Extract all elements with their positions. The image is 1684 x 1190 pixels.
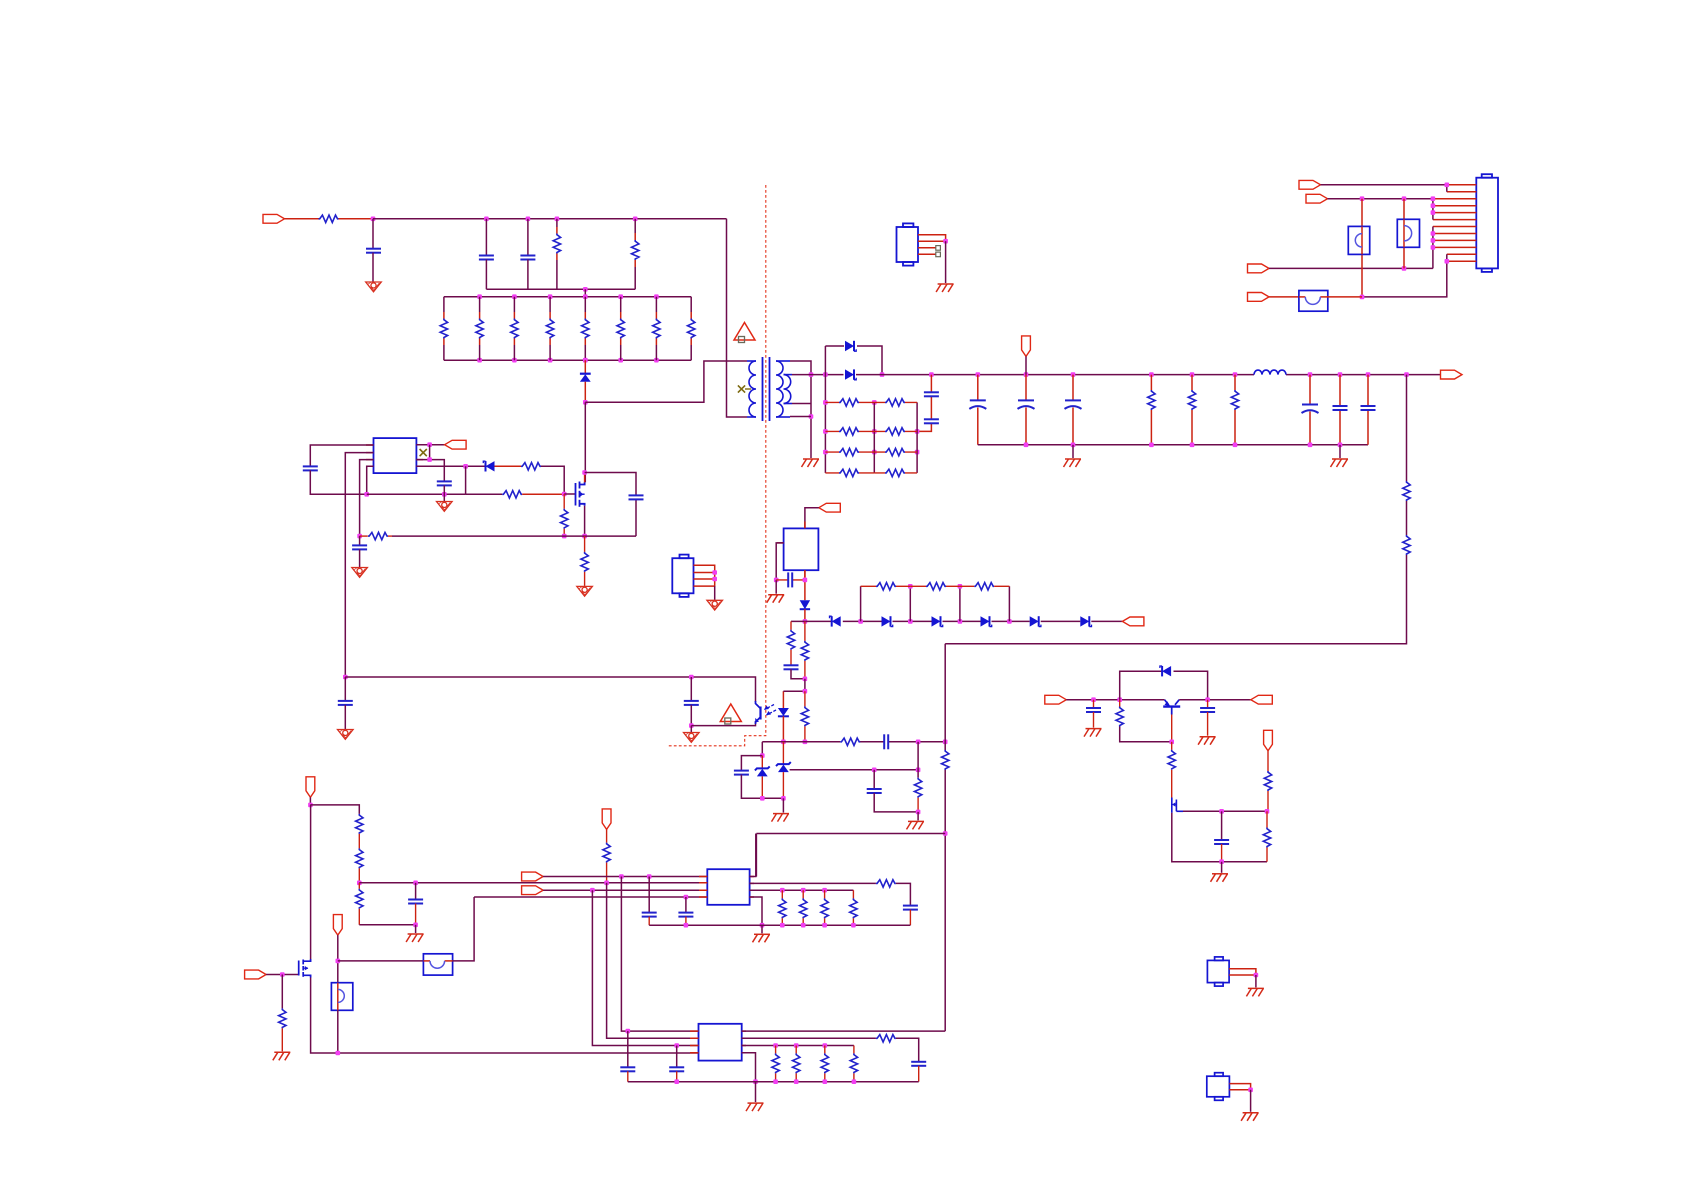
wire clamp bank top bus	[444, 296, 691, 298]
no-connect square pin3	[936, 246, 941, 251]
junction	[582, 534, 587, 539]
wire snubber right vertical	[916, 402, 918, 473]
jumper JP3	[331, 983, 352, 1011]
wire U5 ground bus	[628, 1081, 919, 1083]
wire	[1269, 267, 1433, 269]
diode D1	[845, 341, 856, 351]
wire feedback drop vertical	[945, 375, 1406, 644]
wire rail resistor row verticals	[861, 586, 1010, 621]
net flag U1 (left)	[445, 440, 467, 449]
junction	[823, 429, 828, 434]
wire	[344, 677, 346, 701]
wire	[761, 925, 763, 933]
resistor R32	[801, 691, 808, 742]
capacitor C20	[734, 771, 749, 775]
wire U5 R2 row	[742, 1038, 919, 1062]
resistor R35	[942, 750, 949, 770]
wire	[805, 508, 819, 529]
wire V3 vertical to IC3	[607, 883, 699, 1039]
junction	[929, 372, 934, 377]
junction	[689, 723, 694, 728]
junction	[872, 429, 877, 434]
junction	[760, 753, 765, 758]
junction	[872, 400, 877, 405]
junction	[880, 372, 885, 377]
wire	[1339, 445, 1341, 458]
junction	[822, 888, 827, 893]
zener Z1	[755, 756, 770, 799]
wire	[495, 465, 522, 467]
junction	[674, 1043, 679, 1048]
wire	[465, 466, 467, 494]
inductor L1	[1254, 370, 1286, 375]
wire feedback row	[762, 741, 945, 743]
junction	[712, 577, 717, 582]
wire	[358, 868, 360, 882]
junction	[308, 803, 313, 808]
resistor R9 (snub row1 col1)	[825, 399, 874, 406]
wire	[339, 218, 374, 220]
capacitor C9	[1333, 375, 1348, 445]
junction	[823, 1043, 828, 1048]
wire	[541, 466, 564, 494]
junction	[1091, 697, 1096, 702]
wire zener rail	[791, 620, 1122, 622]
wire	[1321, 185, 1447, 192]
wire mid bus	[486, 288, 635, 290]
wire	[485, 260, 487, 290]
wire bypass diode row	[1120, 671, 1208, 700]
resistor R51	[772, 1046, 779, 1082]
wire U4 R4 gnd	[750, 897, 762, 925]
junction	[823, 372, 828, 377]
resistor R1 (bank)	[440, 297, 447, 361]
resistor R23 (gate2)	[502, 491, 522, 498]
resistor R54	[850, 1046, 857, 1082]
junction	[619, 874, 624, 879]
opto U2 LED	[778, 691, 789, 742]
wire U5 left pin stubs	[690, 1031, 746, 1053]
junction	[1338, 443, 1343, 448]
junction	[427, 442, 432, 447]
wire U4 R3 row	[750, 889, 854, 891]
T1 secondary outer winding	[776, 361, 790, 417]
net flag gate (right)	[245, 970, 267, 979]
resistor R-b	[632, 240, 639, 260]
wire Q2 drain up	[309, 805, 311, 959]
wire	[690, 677, 692, 701]
junction	[1360, 196, 1365, 201]
wire X3 pins	[694, 565, 715, 586]
resistor R34	[914, 742, 921, 812]
junction	[684, 895, 689, 900]
capacitor C27	[678, 897, 693, 925]
junction	[1169, 740, 1174, 745]
resistor R4 (bank)	[546, 297, 553, 361]
resistor R7 (bank)	[653, 297, 660, 361]
junction	[958, 584, 963, 589]
resistor R3 (bank)	[511, 297, 518, 361]
ground (earth) output2	[1331, 459, 1349, 467]
connector flag J-AC input	[263, 214, 285, 223]
wire	[310, 470, 366, 494]
junction	[1190, 372, 1195, 377]
wire	[556, 254, 558, 261]
junction	[976, 372, 981, 377]
resistor R17 (bleeder)	[1148, 375, 1155, 445]
ground (earth) secondary	[802, 459, 820, 467]
resistor R38	[1264, 751, 1271, 812]
wire X2 pins	[1229, 1084, 1250, 1090]
no-connect square pin4	[936, 252, 941, 257]
junction	[916, 810, 921, 815]
capacitor C25	[408, 883, 423, 925]
capacitor C10	[1361, 375, 1376, 445]
capacitor C14	[352, 545, 367, 549]
T1 primary winding	[747, 361, 756, 417]
junction	[1431, 210, 1436, 215]
capacitor C2	[520, 256, 535, 260]
wire U5 R1 row	[742, 1030, 946, 1032]
ground (earth) U3	[767, 595, 785, 603]
resistor R52	[793, 1046, 800, 1082]
junction	[809, 414, 814, 419]
net flag TR4	[1248, 293, 1270, 302]
wire	[917, 812, 919, 821]
wire	[266, 974, 299, 976]
wire pin1R to pin3R	[429, 445, 431, 460]
resistor R8 (bank)	[688, 297, 695, 361]
net flag V2 (down)	[333, 915, 342, 936]
junction	[1308, 372, 1313, 377]
resistor R22 (gate)	[521, 463, 541, 470]
junction dots bank top	[477, 294, 658, 299]
wire H1 pin3	[918, 247, 936, 249]
resistor R20 (fb divider)	[1403, 481, 1410, 501]
junction	[1402, 266, 1407, 271]
IC U4 body	[707, 869, 749, 905]
wire line A	[543, 876, 707, 878]
wire fb right vertical	[944, 644, 946, 1031]
junction	[1149, 372, 1154, 377]
T1 primary tap X mark	[738, 385, 751, 392]
resistor R12 (snub row2 col2)	[874, 428, 917, 435]
wire clamp bank bottom bus	[444, 359, 691, 361]
ground (earth) C22	[1084, 729, 1102, 737]
wire	[372, 219, 374, 249]
resistor R41	[356, 848, 363, 868]
no-connect X U1 pin2R	[420, 449, 427, 456]
wire	[359, 924, 415, 926]
resistor R47	[800, 890, 807, 925]
wire snubber cap branch	[585, 473, 636, 537]
junction	[626, 1029, 631, 1034]
junction	[582, 470, 587, 475]
T1 secondary inner winding	[784, 375, 793, 404]
junction	[1360, 295, 1365, 300]
junction	[773, 1043, 778, 1048]
wire U1 pin3R	[416, 460, 444, 482]
capacitor C13 (snubber)	[629, 495, 644, 499]
connector flag output (right)	[1441, 370, 1463, 379]
wire main output row	[856, 374, 1440, 376]
net flag V1 (down)	[306, 777, 315, 798]
net flag zener rail (left)	[1122, 617, 1144, 626]
wire top bus	[373, 218, 727, 220]
ground (earth) gate	[273, 1052, 291, 1060]
part X2 body	[1207, 1073, 1230, 1101]
IC U3 body	[784, 528, 819, 570]
wire	[782, 798, 784, 812]
connector CN pins (red)	[1433, 185, 1476, 261]
junction	[1404, 372, 1409, 377]
junction	[958, 619, 963, 624]
wire C vertical to IC3	[592, 890, 698, 1045]
resistor R28	[910, 583, 960, 590]
resistor R45	[876, 880, 896, 887]
wire H1 pin2	[918, 240, 946, 242]
junction	[343, 675, 348, 680]
ground (signal) C15	[338, 730, 354, 740]
junction	[1366, 372, 1371, 377]
wire	[714, 586, 716, 600]
junction	[823, 450, 828, 455]
wire rectifier left vertical	[824, 346, 826, 473]
wire	[358, 834, 360, 849]
capacitor C8 electrolytic	[1302, 375, 1319, 445]
wire Q1 source	[584, 506, 586, 536]
wire U1 pinA	[310, 445, 373, 466]
wire	[522, 493, 564, 495]
capacitor C5 electrolytic	[969, 375, 986, 445]
junction	[760, 796, 765, 801]
transistor Q3 (PNP)	[1163, 700, 1180, 715]
resistor R16 (snub row4 col2)	[874, 469, 917, 476]
junction	[555, 217, 560, 222]
junction	[1071, 372, 1076, 377]
ground (earth) U4	[753, 934, 771, 942]
wire	[527, 260, 529, 290]
junction	[823, 400, 828, 405]
junction	[1431, 231, 1436, 236]
wire	[945, 241, 947, 283]
MOSFET Q2 (PMOS)	[299, 959, 311, 978]
capacitor C-in	[366, 249, 381, 253]
net flag TR3	[1248, 264, 1270, 273]
isolation dashed line	[668, 185, 766, 746]
resistor R33	[840, 738, 860, 745]
wire	[791, 669, 805, 679]
wire	[1250, 1090, 1252, 1112]
junction	[916, 768, 921, 773]
junction	[803, 677, 808, 682]
capacitor C18	[784, 665, 799, 669]
resistor R-a	[553, 234, 560, 254]
wire secondary outer bottom	[790, 416, 811, 418]
resistor R31	[801, 621, 808, 678]
zener Z2	[776, 742, 791, 799]
wire secondary main node	[792, 374, 844, 376]
ground (earth) X2	[1241, 1113, 1259, 1121]
junction	[1117, 697, 1122, 702]
junction	[943, 740, 948, 745]
ground (earth) X1	[1246, 988, 1264, 996]
resistor R42	[356, 883, 363, 925]
junction	[781, 740, 786, 745]
junction	[364, 492, 369, 497]
wire top bus down to primary bottom	[727, 219, 748, 417]
junction	[858, 619, 863, 624]
capacitor C11	[303, 466, 318, 470]
wire	[775, 580, 777, 594]
resistor R26 (Q1 source gnd)	[581, 536, 588, 586]
wire	[790, 650, 792, 666]
junction	[357, 881, 362, 886]
wire	[755, 1082, 757, 1102]
junction	[1024, 443, 1029, 448]
jumper JP1	[1348, 199, 1369, 297]
wire	[691, 721, 755, 726]
junction	[590, 888, 595, 893]
warning triangle near transformer	[734, 323, 755, 343]
wire pins11-12 tie	[1362, 254, 1447, 297]
wire sense row	[392, 535, 636, 537]
wire	[783, 679, 805, 691]
junction	[781, 796, 786, 801]
junction	[1219, 859, 1224, 864]
junction	[753, 1079, 758, 1084]
capacitor C23	[1200, 700, 1215, 736]
junction	[908, 619, 913, 624]
IC U5 body	[699, 1024, 742, 1061]
ground (earth) divider	[406, 934, 424, 942]
T1 core	[763, 357, 770, 421]
junction	[908, 584, 913, 589]
net flag Q3-in (right)	[1045, 695, 1067, 704]
warning triangle near opto	[720, 704, 741, 724]
wire U1 pin4R gate row	[416, 465, 485, 467]
junction	[1254, 973, 1259, 978]
wire U1 pin1R	[416, 444, 444, 446]
diode D2	[845, 369, 856, 379]
wire U4 left pin stubs	[699, 877, 754, 898]
wire	[310, 805, 359, 814]
capacitor C28	[903, 906, 918, 926]
resistor R-in	[319, 215, 339, 222]
wire Q4 gate row	[1183, 810, 1267, 812]
junction	[413, 881, 418, 886]
resistor R40	[356, 814, 363, 834]
resistor R2 (bank)	[476, 297, 483, 361]
wire	[1221, 862, 1223, 873]
junction	[1431, 238, 1436, 243]
junction dots bank bottom	[477, 358, 658, 363]
junction	[336, 1051, 341, 1056]
resistor R36	[1116, 700, 1171, 742]
wire Q3 base	[1171, 715, 1173, 742]
wire	[285, 218, 319, 220]
junction	[1233, 372, 1238, 377]
wire Q4 source to bottom row	[1172, 813, 1267, 862]
wire	[1328, 199, 1433, 220]
junction	[794, 1043, 799, 1048]
wire to primary top	[585, 361, 747, 402]
wire	[1327, 296, 1362, 298]
opto U2 light arrows	[764, 705, 776, 716]
wire H1 pin4	[918, 253, 936, 255]
junction	[280, 972, 285, 977]
resistor R24 (gate pulldown)	[561, 494, 568, 536]
ground (signal)	[366, 282, 382, 292]
junction	[562, 534, 567, 539]
ground (earth) H1	[936, 284, 954, 292]
resistor R37	[1168, 742, 1175, 798]
junction	[1024, 372, 1029, 377]
wire	[527, 219, 529, 256]
ground (signal) opto	[684, 733, 700, 743]
junction	[803, 740, 808, 745]
capacitor C6 electrolytic	[1018, 375, 1035, 445]
junction dots U4 bus	[684, 923, 856, 928]
wire U3 pin stubs	[777, 522, 805, 578]
ground (earth) zeners	[772, 814, 790, 822]
resistor R50	[876, 1035, 896, 1042]
junction	[357, 534, 362, 539]
wire U1 ground bus	[367, 493, 466, 495]
resistor R39	[1263, 811, 1270, 861]
junction	[872, 768, 877, 773]
part X3 body	[672, 555, 693, 597]
wire line C	[543, 889, 707, 891]
wire vcc row	[345, 677, 755, 702]
resistor R53	[821, 1046, 828, 1082]
junction	[774, 578, 779, 583]
junction	[803, 578, 808, 583]
resistor R19 (bleeder)	[1231, 375, 1238, 445]
fuse F1	[1299, 291, 1328, 312]
wire A vertical to IC3	[621, 877, 698, 1032]
resistor R10 (snub row1 col2)	[874, 399, 917, 406]
junction	[484, 217, 489, 222]
wire	[634, 219, 636, 233]
resistor R48	[821, 890, 828, 925]
wire U1 pinB long vertical	[345, 453, 373, 677]
diode D6	[830, 616, 841, 626]
wire	[741, 775, 783, 799]
capacitor C15	[338, 701, 353, 705]
wire U3 bottom	[804, 570, 806, 600]
wire	[556, 219, 558, 227]
wire pins7-10 tie	[1432, 227, 1434, 269]
wire output bottom bus	[978, 444, 1368, 446]
resistor R6 (bank)	[617, 297, 624, 361]
junction	[647, 874, 652, 879]
junction	[943, 239, 948, 244]
net flag C (right)	[522, 886, 544, 895]
resistor R13 (snub row3 col1)	[825, 448, 874, 455]
junction	[943, 831, 948, 836]
junction	[442, 492, 447, 497]
ground (earth) C23	[1198, 737, 1216, 745]
junction	[526, 217, 531, 222]
junction	[803, 689, 808, 694]
wire	[1066, 699, 1164, 701]
resistor R5 (bank)	[582, 297, 589, 361]
resistor R43	[279, 975, 286, 1052]
resistor R27	[861, 583, 911, 590]
junction	[780, 888, 785, 893]
wire U5 R3 row	[742, 1045, 854, 1047]
